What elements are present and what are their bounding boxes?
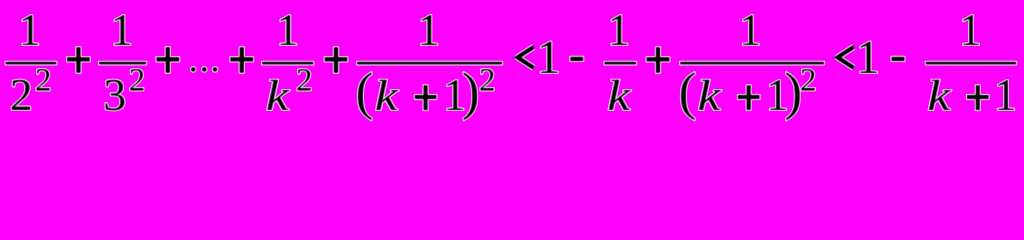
svg-text:3: 3 bbox=[103, 69, 126, 120]
svg-text:(: ( bbox=[356, 63, 374, 121]
svg-text:1: 1 bbox=[276, 5, 299, 55]
fraction bar of second 1/(k+1)^2 bbox=[680, 62, 824, 65]
less-than sign 2 bbox=[838, 47, 854, 68]
black formula ink bbox=[6, 5, 1017, 121]
fraction bar of 1/k^2 bbox=[262, 62, 313, 65]
minus sign 2 bbox=[892, 57, 905, 61]
plus sign 5 bbox=[647, 57, 670, 61]
denominator k of 1/k (italic) bbox=[607, 72, 631, 120]
plus inside parentheses bbox=[415, 95, 437, 99]
less-than sign 2 bbox=[838, 47, 854, 68]
plus inside parentheses bbox=[415, 95, 437, 99]
fraction bar of 1/k bbox=[604, 62, 636, 65]
svg-text:2: 2 bbox=[129, 63, 146, 99]
plus sign 2 bbox=[156, 57, 179, 61]
fraction bar of first 1/(k+1)^2 bbox=[357, 62, 502, 65]
fraction bar of first 1/(k+1)^2 bbox=[357, 62, 502, 65]
fraction bar of 1/k bbox=[604, 62, 636, 65]
fraction bar of 1/2^2 bbox=[6, 62, 57, 65]
svg-text:(: ( bbox=[679, 63, 697, 121]
ellipsis dots bbox=[191, 67, 196, 72]
plus sign 4 bbox=[325, 57, 348, 61]
svg-text:1: 1 bbox=[856, 31, 880, 84]
minus sign 1 bbox=[570, 57, 583, 61]
denominator k of 1/(k+1) (italic) bbox=[927, 72, 951, 120]
k inside parentheses (italic) bbox=[375, 72, 399, 120]
plus sign 3 bbox=[230, 57, 253, 61]
svg-text:2: 2 bbox=[800, 63, 817, 99]
plus sign 5 bbox=[647, 57, 670, 61]
svg-text:): ) bbox=[462, 63, 480, 121]
minus sign 2 bbox=[892, 57, 905, 61]
fraction bar of 1/k^2 bbox=[262, 62, 313, 65]
svg-text:k: k bbox=[697, 72, 721, 120]
svg-text:1: 1 bbox=[994, 69, 1017, 120]
svg-text:1: 1 bbox=[607, 5, 630, 55]
less-than sign 1 bbox=[518, 47, 534, 68]
plus sign 4 bbox=[325, 57, 348, 61]
svg-text:2: 2 bbox=[35, 63, 52, 99]
svg-text:k: k bbox=[927, 72, 951, 120]
plus sign 3 bbox=[230, 57, 253, 61]
plus in denominator k+1 bbox=[967, 95, 989, 99]
plus inside parentheses bbox=[738, 95, 760, 99]
svg-text:1: 1 bbox=[537, 31, 561, 84]
svg-text:2: 2 bbox=[10, 69, 33, 120]
denominator k of 1/k (italic) bbox=[607, 72, 631, 120]
fraction bar of 1/3^2 bbox=[99, 62, 146, 65]
denominator k of 1/(k+1) (italic) bbox=[927, 72, 951, 120]
svg-text:1: 1 bbox=[19, 5, 42, 55]
svg-text:k: k bbox=[266, 72, 290, 120]
k inside parentheses (italic) bbox=[375, 72, 399, 120]
less-than sign 1 bbox=[518, 47, 534, 68]
plus sign 1 bbox=[67, 57, 90, 61]
plus sign 1 bbox=[67, 57, 90, 61]
plus inside parentheses bbox=[738, 95, 760, 99]
svg-text:1: 1 bbox=[417, 5, 440, 55]
ellipsis dots bbox=[191, 67, 196, 72]
fraction bar of second 1/(k+1)^2 bbox=[680, 62, 824, 65]
svg-text:1: 1 bbox=[959, 5, 982, 55]
svg-text:1: 1 bbox=[110, 5, 133, 55]
k inside parentheses (italic) bbox=[697, 72, 721, 120]
fraction bar of 1/(k+1) bbox=[926, 62, 1017, 65]
minus sign 1 bbox=[570, 57, 583, 61]
white anti-alias halo copy of the formula bbox=[6, 5, 1017, 121]
denominator k (italic) bbox=[266, 72, 290, 120]
fraction bar of 1/(k+1) bbox=[926, 62, 1017, 65]
k inside parentheses (italic) bbox=[697, 72, 721, 120]
plus sign 2 bbox=[156, 57, 179, 61]
plus in denominator k+1 bbox=[967, 95, 989, 99]
fraction bar of 1/3^2 bbox=[99, 62, 146, 65]
svg-text:2: 2 bbox=[296, 63, 313, 99]
magenta background bbox=[0, 0, 1024, 140]
denominator k (italic) bbox=[266, 72, 290, 120]
svg-text:1: 1 bbox=[739, 5, 762, 55]
fraction bar of 1/2^2 bbox=[6, 62, 57, 65]
svg-text:k: k bbox=[607, 72, 631, 120]
svg-text:2: 2 bbox=[479, 63, 496, 99]
svg-text:k: k bbox=[375, 72, 399, 120]
